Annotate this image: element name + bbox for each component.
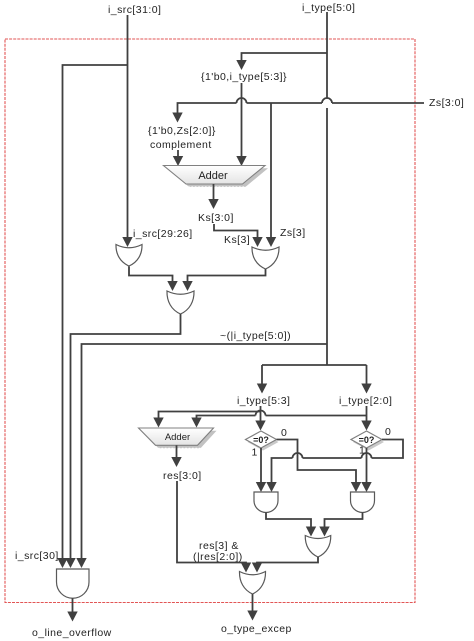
svg-text:Zs[3:0]: Zs[3:0]: [429, 97, 464, 109]
svg-text:res[3:0]: res[3:0]: [163, 470, 202, 482]
svg-text:{1'b0,Zs[2:0]}: {1'b0,Zs[2:0]}: [148, 125, 216, 137]
svg-text:0: 0: [281, 427, 287, 439]
svg-text:o_type_excep: o_type_excep: [221, 623, 292, 635]
svg-text:1: 1: [252, 447, 258, 459]
svg-text:o_line_overflow: o_line_overflow: [32, 627, 112, 639]
svg-text:1: 1: [359, 445, 365, 457]
svg-text:Ks[3:0]: Ks[3:0]: [198, 212, 234, 224]
svg-text:i_type[5:0]: i_type[5:0]: [302, 2, 355, 14]
svg-text:(|res[2:0]): (|res[2:0]): [193, 551, 243, 563]
svg-text:Zs[3]: Zs[3]: [280, 227, 306, 239]
svg-text:i_type[5:3]: i_type[5:3]: [237, 395, 290, 407]
svg-text:0: 0: [385, 426, 391, 438]
svg-text:=0?: =0?: [359, 435, 375, 445]
svg-text:{1'b0,i_type[5:3]}: {1'b0,i_type[5:3]}: [201, 71, 287, 83]
svg-text:Ks[3]: Ks[3]: [224, 234, 250, 246]
svg-text:Adder: Adder: [198, 170, 228, 182]
svg-text:i_src[30]: i_src[30]: [15, 550, 59, 562]
svg-text:~(|i_type[5:0]): ~(|i_type[5:0]): [220, 330, 291, 342]
svg-text:i_type[2:0]: i_type[2:0]: [339, 395, 392, 407]
svg-text:i_src[31:0]: i_src[31:0]: [108, 4, 161, 16]
svg-text:i_src[29:26]: i_src[29:26]: [133, 228, 193, 240]
svg-text:=0?: =0?: [253, 435, 269, 445]
svg-text:Adder: Adder: [165, 432, 190, 443]
svg-text:complement: complement: [150, 139, 212, 151]
